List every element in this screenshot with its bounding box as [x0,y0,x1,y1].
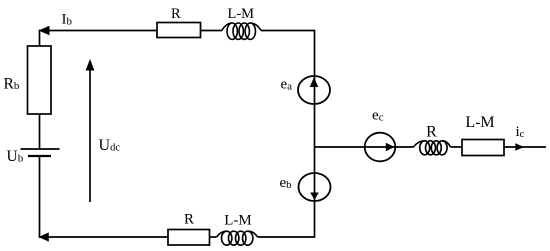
Udc arrow shaft [89,70,91,202]
svg-text:Udc: Udc [99,137,121,154]
svg-text:R: R [184,211,194,227]
svg-text:Ib: Ib [62,12,73,28]
wire bottom-right to corner [258,236,316,238]
arrowhead bottom wire (points left) [39,232,49,241]
svg-text:Ub: Ub [7,148,24,165]
arrowhead ea (points up) [310,77,319,87]
svg-text:eb: eb [280,175,293,191]
arrowhead Ib (points left) [39,26,50,35]
svg-text:L-M: L-M [224,213,252,229]
source eb circle [299,173,331,201]
wire Rb to battery [39,114,41,148]
inductor R coil (right branch) [414,141,451,155]
svg-text:L-M: L-M [465,114,494,131]
inductor L-M (bottom) [217,231,258,245]
svg-text:R: R [426,124,437,141]
source ea circle [298,76,330,104]
source ec circle [365,133,396,162]
svg-text:L-M: L-M [228,6,255,22]
resistor Rb [28,46,52,114]
arrowhead ec (points right) [386,143,395,152]
wire top from Ib arrow to resistor R [39,30,157,32]
wire right vertical through ea and eb [314,31,316,238]
svg-text:ic: ic [516,124,525,140]
resistor R (bottom) [168,230,210,246]
svg-text:Rb: Rb [4,76,20,93]
inductance L-M box (right branch) [462,140,504,156]
inductor L-M (top) [222,23,262,39]
arrowhead Udc (points up) [86,59,95,71]
battery Ub long plate [21,148,60,150]
svg-text:ec: ec [372,107,384,123]
wire middle branch from node to coil [315,146,414,148]
wire top-right to corner [261,30,315,32]
battery Ub short plate [28,155,51,157]
wire stub top-left corner down to Rb [39,30,41,46]
wire L-M box to output ic [504,146,546,148]
arrowhead eb (points down) [310,193,319,201]
arrowhead ic (points right) [515,143,524,151]
wire bottom from arrow to resistor R [39,236,168,238]
wire between R and L-M (top) [201,30,222,32]
wire coil to L-M box (right branch) [451,146,463,148]
wire battery to bottom corner [39,156,41,238]
svg-text:ea: ea [281,76,293,92]
wire between R and L-M (bottom) [210,236,217,238]
svg-text:R: R [171,6,181,22]
resistor R (top) [157,23,201,38]
